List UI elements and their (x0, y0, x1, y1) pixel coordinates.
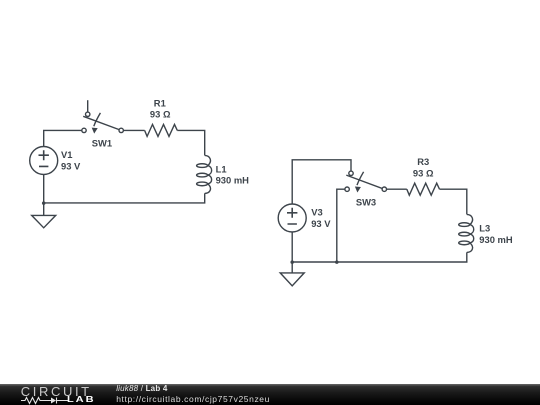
svg-text:L3: L3 (479, 222, 490, 233)
wire R1 to L1 top (177, 130, 204, 155)
inductor L1 (197, 155, 212, 193)
wire node A to ground (43, 203, 45, 216)
voltage source V3 (278, 204, 306, 232)
switch SW1 (82, 100, 124, 133)
svg-text:R3: R3 (417, 156, 429, 167)
wire L3 bottom to bottom rail to node B (292, 252, 467, 262)
wire R3 to L3 top (440, 189, 467, 214)
ground right (280, 273, 304, 286)
logo LAB wordmark (67, 395, 96, 404)
wire SW3 left throw down to bottom rail node C (337, 189, 345, 262)
svg-text:93 V: 93 V (311, 218, 331, 229)
footer title liuk88 / Lab 4 (116, 384, 167, 393)
svg-text:93 V: 93 V (61, 161, 81, 172)
junction node B (290, 260, 294, 264)
svg-text:93 Ω: 93 Ω (150, 109, 171, 120)
wire SW3 pole to R3 (386, 188, 407, 190)
inductor L3 (459, 214, 474, 252)
voltage source V1 (30, 147, 58, 175)
footer bar (0, 384, 540, 405)
svg-text:93 Ω: 93 Ω (413, 167, 434, 178)
junction node C (335, 260, 339, 264)
svg-text:SW3: SW3 (356, 197, 376, 208)
resistor R3 (407, 183, 440, 195)
footer url (116, 394, 270, 404)
wire V1 bottom to node A (43, 175, 45, 203)
junction node A (42, 201, 46, 205)
wire V1 top to SW1 left throw (44, 130, 82, 146)
logo mini schematic (20, 396, 70, 405)
svg-text:SW1: SW1 (92, 137, 112, 148)
resistor R1 (145, 124, 178, 136)
svg-text:930 mH: 930 mH (479, 234, 513, 245)
svg-text:V1: V1 (61, 149, 72, 160)
wire V3 top to SW3 top throw (292, 160, 351, 204)
wire V3 bottom to node B (291, 232, 293, 262)
svg-text:930 mH: 930 mH (216, 175, 250, 186)
wire node B to ground (291, 262, 293, 273)
wire L1 bottom to bottom rail to node A (44, 193, 205, 203)
switch SW3 (345, 171, 387, 192)
svg-text:L1: L1 (216, 163, 227, 174)
svg-text:V3: V3 (311, 207, 322, 218)
svg-text:R1: R1 (154, 98, 166, 109)
ground left (32, 215, 56, 227)
logo CIRCUIT wordmark (21, 384, 92, 399)
wire SW1 pole to R1 (123, 129, 144, 131)
